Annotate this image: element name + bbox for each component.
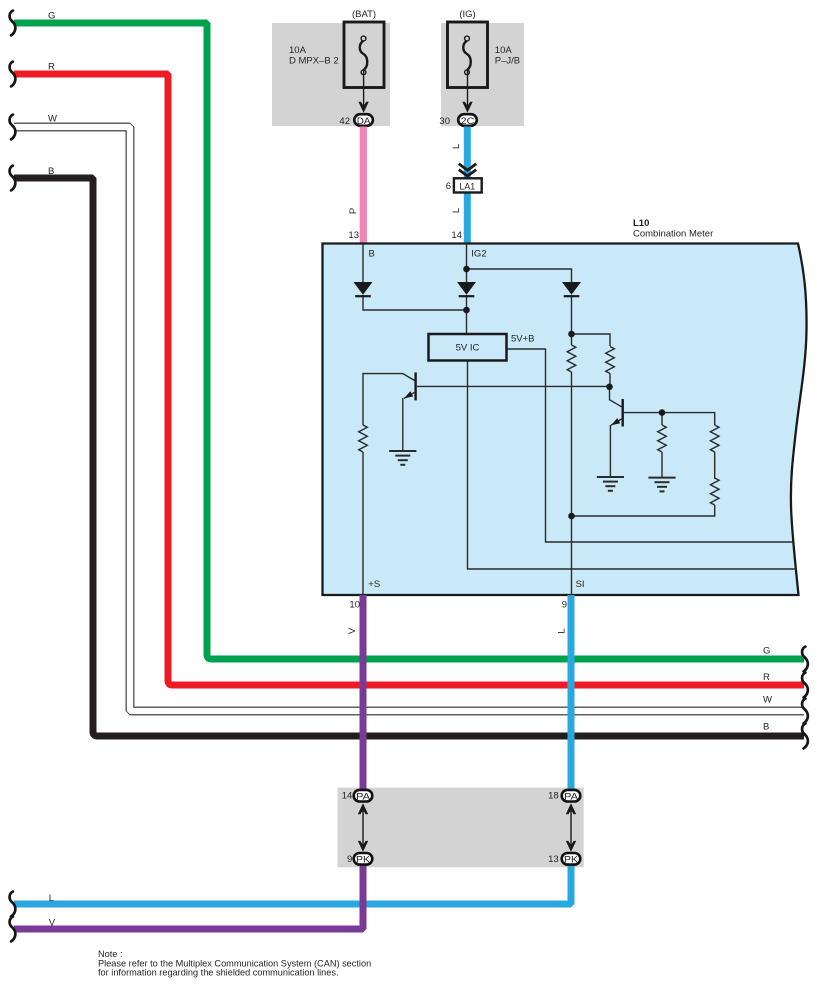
- break B right: [802, 724, 808, 749]
- connector box gray PA/PK: [338, 788, 584, 868]
- svg-text:LA1: LA1: [459, 181, 475, 192]
- svg-text:5V IC: 5V IC: [456, 343, 480, 354]
- fuse F2 10A P-J/B: [448, 22, 488, 88]
- wire V purple upper: [360, 595, 367, 790]
- wire Q1 emitter to ground: [403, 392, 415, 451]
- svg-text:D MPX–B 2: D MPX–B 2: [289, 56, 339, 67]
- resistor R4b: [710, 478, 719, 505]
- wire R3 bottom to ground: [661, 452, 663, 478]
- wire P pink DA to pin 13: [360, 127, 367, 244]
- wire pin13 to D1: [362, 244, 364, 284]
- svg-text:13: 13: [548, 854, 559, 865]
- wire IG2 branch to D3: [467, 269, 572, 283]
- connector LA1 pin 6: [454, 178, 482, 192]
- wire R2 bottom to base node: [609, 374, 611, 387]
- svg-text:B: B: [763, 722, 769, 733]
- break L left: [10, 892, 16, 917]
- svg-text:18: 18: [548, 791, 559, 802]
- svg-text:13: 13: [348, 230, 359, 241]
- svg-text:9: 9: [347, 854, 352, 865]
- break B left: [10, 166, 16, 191]
- transistor Q1: [414, 372, 416, 400]
- break G left: [10, 11, 16, 36]
- node R1 top branch: [568, 331, 575, 338]
- svg-text:L: L: [49, 893, 54, 904]
- break V left: [10, 917, 16, 942]
- node base-R3: [659, 409, 666, 416]
- wire Q1 base line: [417, 385, 610, 387]
- svg-text:42: 42: [339, 116, 350, 127]
- fuse box gray (IG): [441, 23, 524, 126]
- wire G: [14, 23, 804, 659]
- svg-text:V: V: [347, 627, 358, 634]
- fuse F1 10A D MPX-B 2: [344, 22, 384, 88]
- fuse box gray (BAT): [272, 23, 390, 126]
- wire 5V+B from 5V IC right: [507, 349, 794, 542]
- connector oval PA left pin 14: [354, 790, 373, 802]
- svg-text:V: V: [49, 918, 56, 929]
- svg-text:P–J/B: P–J/B: [495, 56, 520, 67]
- svg-text:6: 6: [446, 181, 451, 192]
- ground G3: [648, 478, 675, 492]
- node IG2 branch: [463, 266, 470, 273]
- ground G2: [597, 477, 624, 491]
- wire D3 out to R1: [571, 295, 573, 345]
- wire R: [14, 74, 804, 685]
- connector oval PA right pin 18: [562, 790, 581, 802]
- splice chevrons: [459, 164, 476, 176]
- wire R1 bottom to pin 9 SI: [571, 372, 573, 595]
- wire pin14 to D2: [466, 244, 468, 284]
- 5V IC box: [429, 334, 507, 361]
- svg-text:14: 14: [451, 230, 462, 241]
- wire R5 bottom to pin 10: [362, 452, 364, 595]
- svg-text:G: G: [48, 11, 55, 22]
- svg-text:R: R: [763, 672, 770, 683]
- node D1-D2 join: [463, 307, 470, 314]
- transistor Q2: [622, 399, 624, 427]
- ground G1: [389, 451, 416, 465]
- wire D1 out to join: [363, 295, 467, 310]
- svg-text:9: 9: [562, 599, 567, 610]
- wire B: [14, 178, 804, 736]
- break G right: [802, 647, 808, 672]
- svg-text:L10: L10: [633, 218, 649, 229]
- svg-text:PK: PK: [356, 855, 371, 866]
- svg-text:B: B: [48, 166, 54, 177]
- svg-text:L: L: [451, 144, 462, 149]
- wire Q2 base line: [624, 413, 715, 425]
- wire R4a to R4b: [714, 452, 716, 479]
- svg-text:L: L: [557, 628, 568, 633]
- resistor R4a: [710, 425, 719, 452]
- svg-text:P: P: [348, 208, 359, 214]
- wire W: [14, 127, 804, 711]
- wire L blue lower: [14, 864, 571, 904]
- wire fuse1 to DA: [363, 70, 365, 110]
- resistor R1: [567, 345, 576, 372]
- connector arrows left PA-PK: [362, 806, 364, 849]
- svg-text:(IG): (IG): [459, 9, 475, 20]
- connector oval 2C pin 30: [458, 114, 477, 126]
- wire R3 tap: [661, 413, 663, 425]
- diode D2: [457, 282, 476, 296]
- resistor R5: [359, 425, 368, 452]
- node SI-R4: [568, 513, 575, 520]
- svg-text:14: 14: [342, 791, 353, 802]
- wire R4b to SI line: [572, 505, 715, 516]
- wire Q1 collector to R5: [363, 374, 415, 425]
- resistor R3: [658, 425, 667, 452]
- connector oval DA pin 42: [354, 114, 373, 126]
- svg-text:W: W: [763, 695, 772, 706]
- wire D2 out to 5V IC: [466, 295, 468, 334]
- svg-text:G: G: [763, 646, 770, 657]
- svg-text:PA: PA: [356, 792, 371, 803]
- svg-text:PK: PK: [564, 855, 579, 866]
- break W left: [10, 115, 16, 140]
- wire L blue upper: [568, 595, 575, 790]
- wire R1 branch to R2: [572, 334, 611, 346]
- svg-text:10A: 10A: [495, 45, 513, 56]
- svg-text:W: W: [48, 114, 57, 125]
- break R right: [802, 673, 808, 698]
- svg-text:IG2: IG2: [471, 249, 486, 260]
- break R left: [10, 62, 16, 87]
- connector oval PK left pin 9: [354, 853, 373, 865]
- connector arrows right PA-PK: [570, 806, 572, 849]
- diode D1: [354, 282, 373, 296]
- svg-text:Combination Meter: Combination Meter: [633, 229, 713, 240]
- connector oval PK right pin 13: [562, 853, 581, 865]
- wire L blue 2C to pin 14: [464, 127, 471, 244]
- svg-text:2C: 2C: [461, 116, 475, 127]
- wire 5V IC bottom out: [468, 361, 797, 570]
- node base-collector: [606, 384, 613, 391]
- svg-text:R: R: [48, 62, 55, 73]
- svg-text:SI: SI: [576, 579, 585, 590]
- wire fuse2 to 2C: [467, 70, 469, 110]
- svg-text:30: 30: [439, 116, 450, 127]
- wire Q2 emitter to ground: [610, 419, 621, 477]
- svg-text:10A: 10A: [289, 45, 307, 56]
- svg-text:B: B: [369, 249, 375, 260]
- diode D3: [562, 282, 581, 296]
- svg-text:(BAT): (BAT): [352, 9, 376, 20]
- wire Q2 collector: [610, 387, 622, 407]
- resistor R2: [606, 347, 615, 374]
- svg-text:for information regarding the: for information regarding the shielded c…: [98, 968, 339, 978]
- svg-text:10: 10: [349, 599, 360, 610]
- svg-text:DA: DA: [357, 116, 371, 127]
- break W right: [802, 699, 808, 724]
- svg-text:PA: PA: [564, 792, 579, 803]
- svg-text:5V+B: 5V+B: [511, 334, 535, 345]
- svg-text:+S: +S: [368, 579, 380, 590]
- wire V purple lower: [14, 864, 363, 929]
- combination meter box L10: [323, 244, 807, 596]
- svg-text:L: L: [451, 208, 462, 213]
